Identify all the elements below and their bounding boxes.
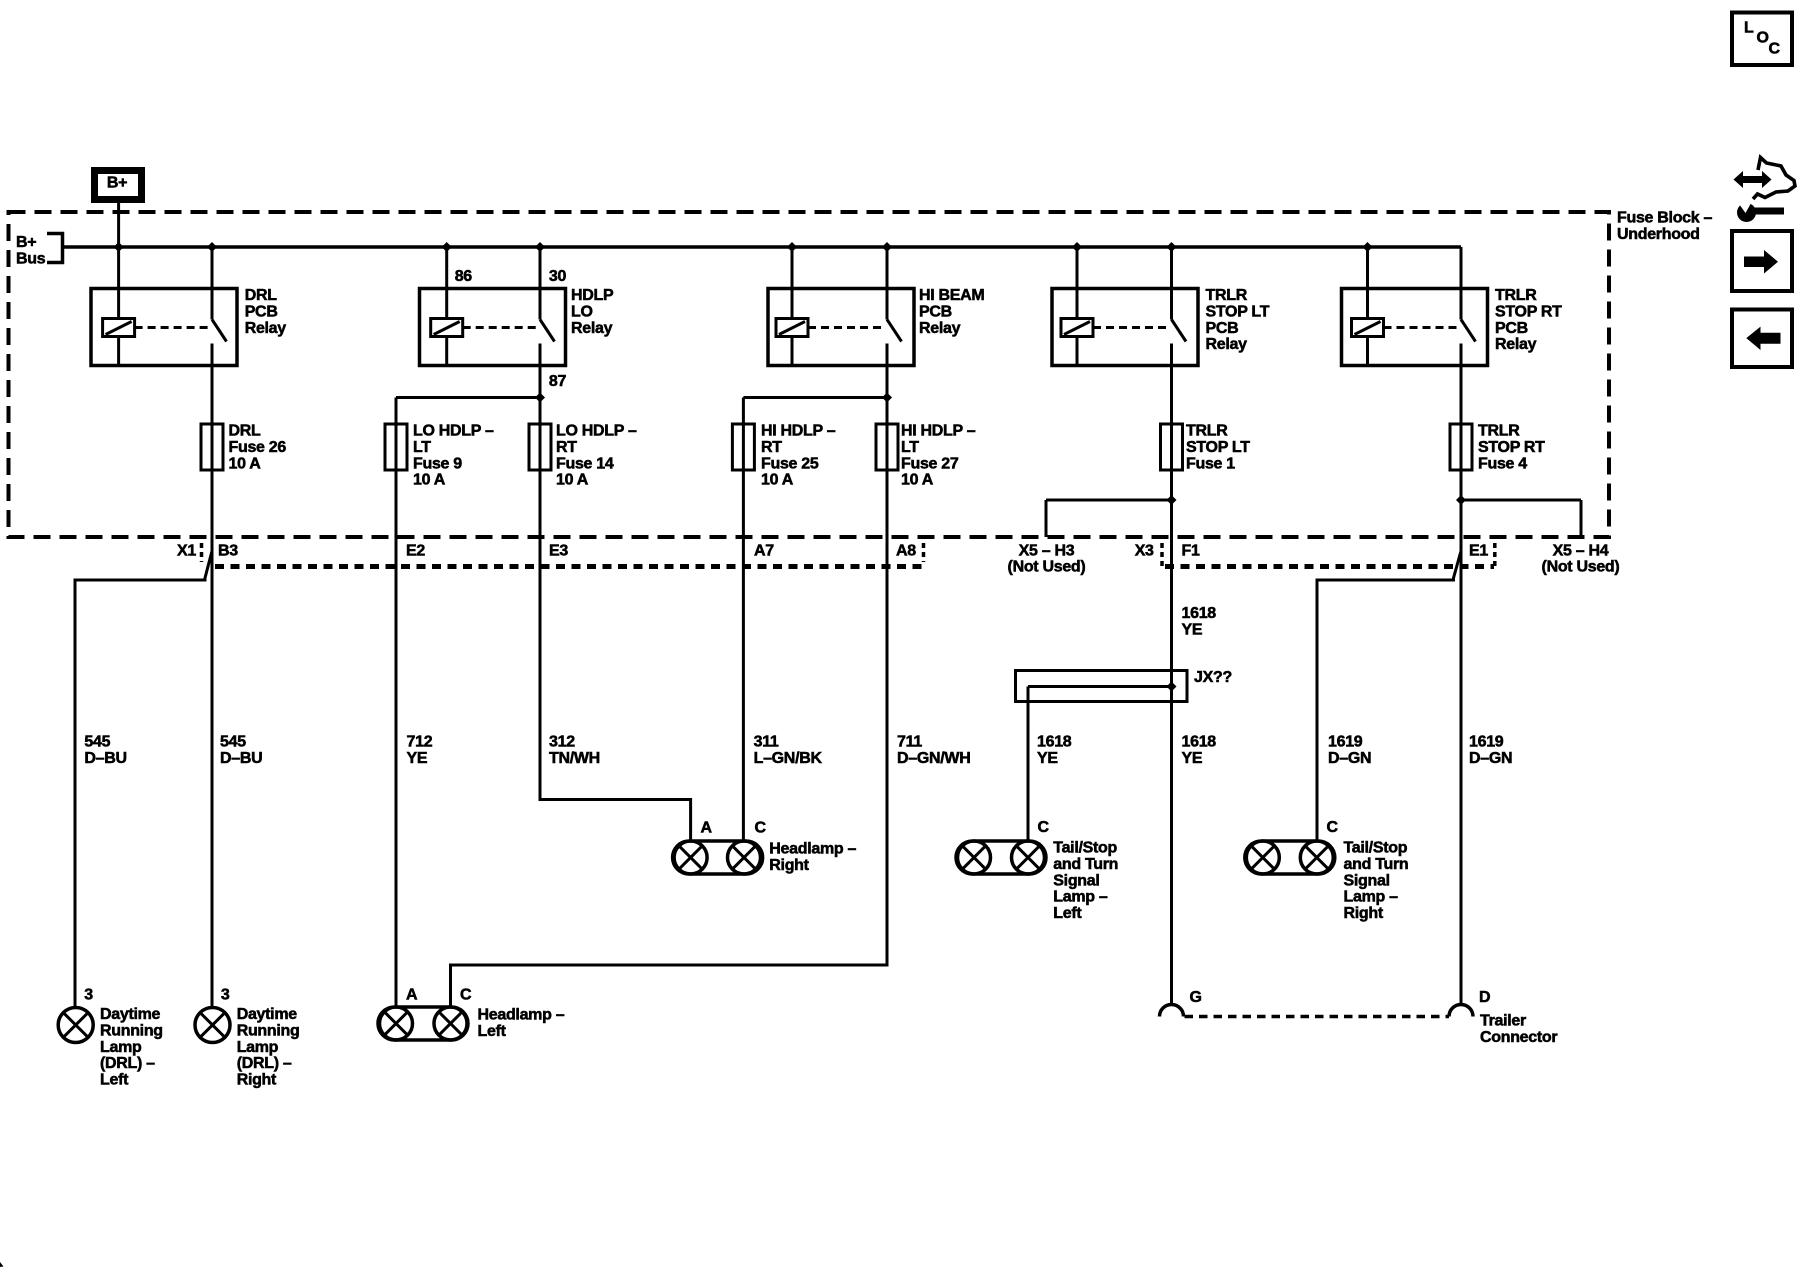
svg-text:YE: YE [407,750,428,767]
svg-text:D–BU: D–BU [84,750,126,767]
svg-text:STOP LT: STOP LT [1186,439,1250,456]
connector dashed line X1 [215,564,922,569]
lamp Daytime Running Lamp DRL Left [58,1008,93,1043]
fuse LO HDLP RT Fuse 14 [539,424,542,470]
svg-text:B+: B+ [107,175,127,192]
trailer connector hook D [1449,1005,1473,1017]
svg-text:Left: Left [478,1023,507,1040]
svg-text:YE: YE [1037,750,1058,767]
svg-text:YE: YE [1182,750,1203,767]
fuse TRLR STOP LT Fuse 1 [1170,424,1173,470]
connector dashed line X3 [1165,564,1494,569]
wire bus to DRL relay switch [211,247,214,289]
wire B+ drop [117,203,120,289]
junction on bus x=446.7 [442,242,452,252]
svg-text:LT: LT [901,439,919,456]
svg-text:PCB: PCB [919,303,952,320]
svg-text:311: 311 [754,734,779,751]
svg-text:RT: RT [556,439,577,456]
junction HDLP LO branch [535,393,545,403]
svg-text:PCB: PCB [1495,320,1528,337]
wire bus to HDLP LO switch [539,247,542,289]
svg-text:(Not Used): (Not Used) [1008,559,1086,576]
svg-text:E2: E2 [406,543,425,560]
svg-text:C: C [755,820,767,837]
wire HDLP LO switch down [539,366,542,398]
svg-text:STOP RT: STOP RT [1495,303,1562,320]
svg-text:Relay: Relay [919,320,961,337]
svg-text:1619: 1619 [1469,734,1504,751]
relay HDLP LO [420,289,566,366]
svg-text:1618: 1618 [1182,734,1217,751]
svg-text:Tail/Stop: Tail/Stop [1053,840,1117,857]
fuse TRLR STOP RT Fuse 4 [1460,424,1463,470]
svg-text:O: O [1757,30,1769,47]
junction X5-H4 branch [1456,495,1466,505]
wire bus to HI BEAM switch [886,247,889,289]
svg-text:TRLR: TRLR [1206,287,1248,304]
svg-text:A8: A8 [896,543,916,560]
svg-text:87: 87 [549,373,567,390]
junction HI BEAM branch [882,393,892,403]
wire bus to TRLR RT switch [1460,247,1463,289]
svg-text:X5 – H3: X5 – H3 [1019,543,1075,560]
svg-text:LO HDLP –: LO HDLP – [556,423,637,440]
connector bracket A8 [922,543,926,562]
lamp Tail/Stop and Turn Signal Lamp Left [956,841,1046,874]
icon jump outline shape [1753,158,1795,200]
junction on bus x=792 [787,242,797,252]
wire to fuse 27 [886,398,889,425]
lamp Tail/Stop and Turn Signal Lamp Right [1245,841,1335,874]
icon jump double arrow [1734,171,1772,188]
svg-text:Lamp –: Lamp – [1344,889,1399,906]
svg-text:A7: A7 [754,543,774,560]
svg-text:312: 312 [549,734,575,751]
svg-text:E1: E1 [1469,543,1488,560]
svg-text:711: 711 [897,734,922,751]
icon left arrow box [1732,310,1792,368]
fuse LO HDLP LT Fuse 9 [395,424,398,470]
svg-text:D–BU: D–BU [220,750,262,767]
svg-text:Fuse 9: Fuse 9 [413,455,462,472]
fuse HI HDLP RT Fuse 25 [742,424,745,470]
icon LOC box [1732,13,1792,66]
connector bracket X1 [200,543,204,562]
svg-text:Lamp: Lamp [237,1039,279,1056]
svg-text:Right: Right [237,1072,277,1089]
trailer connector hook G [1160,1005,1184,1017]
svg-text:Signal: Signal [1344,872,1390,889]
svg-text:X5 – H4: X5 – H4 [1553,543,1609,560]
svg-text:Daytime: Daytime [100,1006,161,1023]
svg-text:A: A [701,820,713,837]
svg-text:DRL: DRL [245,287,278,304]
svg-text:Daytime: Daytime [237,1006,298,1023]
svg-text:1618: 1618 [1037,734,1072,751]
wire 1619 E1 drop [1460,470,1463,1005]
icon wrench [1737,203,1756,222]
wire 312 TN/WH [540,470,691,841]
wire X5-H3 branch [1046,499,1172,502]
wire 311 L-GN/BK [742,470,745,841]
svg-text:Tail/Stop: Tail/Stop [1344,840,1408,857]
svg-text:C: C [1327,819,1339,836]
svg-text:Lamp: Lamp [100,1039,142,1056]
svg-text:PCB: PCB [1206,320,1239,337]
svg-text:Running: Running [100,1022,163,1039]
svg-text:and Turn: and Turn [1344,856,1409,873]
wire branch to fuse 9 [396,396,540,399]
svg-text:DRL: DRL [229,423,262,440]
relay TRLR STOP RT PCB [1342,289,1488,366]
svg-text:(DRL) –: (DRL) – [237,1055,292,1072]
junction on bus x=1171.5 [1167,242,1177,252]
svg-text:X3: X3 [1135,543,1154,560]
svg-text:TRLR: TRLR [1478,423,1520,440]
svg-text:Signal: Signal [1053,872,1099,889]
wire B+ bus horizontal [63,245,1462,249]
wire fuse4 to X5-H4 junction [1460,470,1463,500]
svg-text:D–GN/WH: D–GN/WH [897,750,970,767]
svg-text:Relay: Relay [1495,336,1537,353]
wire bus to TRLR LT coil [1076,247,1079,289]
junction X5-H3 branch [1167,495,1177,505]
fuse DRL Fuse 26 [211,424,214,470]
wire HI BEAM switch down [886,366,889,398]
svg-text:C: C [1038,819,1050,836]
svg-text:B+: B+ [16,234,36,251]
svg-text:545: 545 [84,734,110,751]
svg-text:Right: Right [769,857,809,874]
junction on bus x=1077 [1072,242,1082,252]
svg-text:86: 86 [455,268,473,285]
wire X5-H4 branch [1461,499,1581,502]
svg-text:Relay: Relay [571,320,613,337]
wire bus to TRLR LT switch [1170,247,1173,289]
wire 545 main drop [211,470,214,1008]
svg-text:545: 545 [220,734,246,751]
svg-text:3: 3 [84,987,93,1004]
svg-text:Left: Left [100,1072,129,1089]
junction on bus x=118.6 [114,242,124,252]
svg-text:LO HDLP –: LO HDLP – [413,423,494,440]
svg-text:Fuse 27: Fuse 27 [901,455,959,472]
fuse HI HDLP LT Fuse 27 [886,424,889,470]
svg-text:(Not Used): (Not Used) [1542,559,1620,576]
svg-text:Bus: Bus [16,250,46,267]
svg-text:L: L [1744,20,1754,37]
svg-text:10 A: 10 A [556,472,589,489]
wire bus to TRLR RT coil [1366,247,1369,289]
svg-text:Fuse 1: Fuse 1 [1186,455,1235,472]
svg-text:Relay: Relay [245,320,287,337]
junction on bus x=212 [207,242,217,252]
svg-text:and Turn: and Turn [1053,856,1118,873]
svg-text:Headlamp –: Headlamp – [769,841,856,858]
svg-text:10 A: 10 A [901,472,934,489]
relay DRL PCB [91,289,237,366]
svg-text:10 A: 10 A [413,472,446,489]
svg-text:Fuse 4: Fuse 4 [1478,455,1527,472]
svg-text:JX??: JX?? [1194,669,1232,686]
svg-text:B3: B3 [218,543,238,560]
svg-text:1618: 1618 [1182,605,1217,622]
svg-text:HI HDLP –: HI HDLP – [761,423,836,440]
svg-text:Connector: Connector [1480,1029,1557,1046]
svg-text:YE: YE [1182,621,1203,638]
svg-text:1619: 1619 [1328,734,1363,751]
svg-text:Lamp –: Lamp – [1053,889,1108,906]
wire to fuse 14 [539,398,542,425]
svg-text:Fuse 25: Fuse 25 [761,455,819,472]
svg-text:C: C [460,987,472,1004]
svg-text:C: C [1769,41,1781,58]
trailer connector dashed link [1185,1015,1450,1019]
speck bottom left [0,1262,4,1267]
icon right arrow box [1732,231,1792,291]
junction JX splice [1167,682,1177,692]
splice JX?? box [1016,671,1188,702]
svg-text:HI BEAM: HI BEAM [919,287,984,304]
svg-text:RT: RT [761,439,782,456]
svg-text:STOP RT: STOP RT [1478,439,1545,456]
svg-text:Fuse 26: Fuse 26 [229,439,287,456]
svg-text:HI HDLP –: HI HDLP – [901,423,976,440]
svg-text:F1: F1 [1182,543,1200,560]
svg-text:30: 30 [549,268,567,285]
junction on bus x=1367.5 [1363,242,1373,252]
svg-text:D–GN: D–GN [1328,750,1371,767]
junction on bus x=887 [882,242,892,252]
svg-text:(DRL) –: (DRL) – [100,1055,155,1072]
wire 1619 jog branch [1317,551,1461,841]
wire 1618 F1 drop [1170,470,1173,1005]
svg-text:Trailer: Trailer [1480,1013,1526,1030]
svg-text:G: G [1190,989,1202,1006]
svg-text:10 A: 10 A [761,472,794,489]
wire TRLR RT relay to fuse 4 [1460,366,1463,425]
wire 545 jog [75,551,212,1008]
svg-text:LT: LT [413,439,431,456]
svg-text:Fuse Block –: Fuse Block – [1617,210,1713,227]
wire bus to HDLP LO coil [445,247,448,289]
junction on bus x=540 [535,242,545,252]
lamp Daytime Running Lamp DRL Right [195,1008,230,1043]
svg-text:TRLR: TRLR [1186,423,1228,440]
svg-text:712: 712 [407,734,433,751]
wire DRL relay to fuse 26 [211,366,214,425]
connector bracket E1 [1493,543,1497,566]
wire branch to fuse 25 [743,396,887,399]
svg-text:Right: Right [1344,905,1384,922]
svg-text:X1: X1 [177,543,196,560]
svg-text:Headlamp –: Headlamp – [478,1007,565,1024]
connector bracket X3 [1160,543,1164,566]
svg-text:PCB: PCB [245,303,278,320]
fuse block underhood dashed border [9,212,1610,537]
relay HI BEAM PCB [768,289,914,366]
svg-text:TRLR: TRLR [1495,287,1537,304]
svg-text:10 A: 10 A [229,455,262,472]
wire TRLR LT relay to fuse 1 [1170,366,1173,425]
svg-text:TN/WH: TN/WH [549,750,600,767]
wire bus to HI BEAM coil [791,247,794,289]
lamp Headlamp Left [378,1007,468,1040]
svg-text:LO: LO [571,303,593,320]
svg-text:D: D [1479,989,1490,1006]
wire 711 D-GN/WH [451,470,888,1007]
svg-text:STOP LT: STOP LT [1206,303,1270,320]
svg-text:Relay: Relay [1206,336,1248,353]
svg-text:Fuse 14: Fuse 14 [556,455,614,472]
wire fuse1 to X5-H3 junction [1170,470,1173,500]
wire JX branch 1618 [1028,685,1172,688]
wire 712 YE [395,470,398,1007]
relay TRLR STOP LT PCB [1052,289,1198,366]
svg-text:Underhood: Underhood [1617,226,1700,243]
svg-text:3: 3 [221,987,230,1004]
svg-text:D–GN: D–GN [1469,750,1512,767]
svg-text:HDLP: HDLP [571,287,614,304]
B+ terminal box [95,171,142,200]
svg-text:L–GN/BK: L–GN/BK [754,750,823,767]
svg-text:A: A [406,987,418,1004]
lamp Headlamp Right [673,841,763,874]
svg-text:Left: Left [1053,905,1082,922]
svg-text:E3: E3 [549,543,568,560]
B+ Bus bracket [47,234,63,263]
svg-text:Running: Running [237,1022,300,1039]
